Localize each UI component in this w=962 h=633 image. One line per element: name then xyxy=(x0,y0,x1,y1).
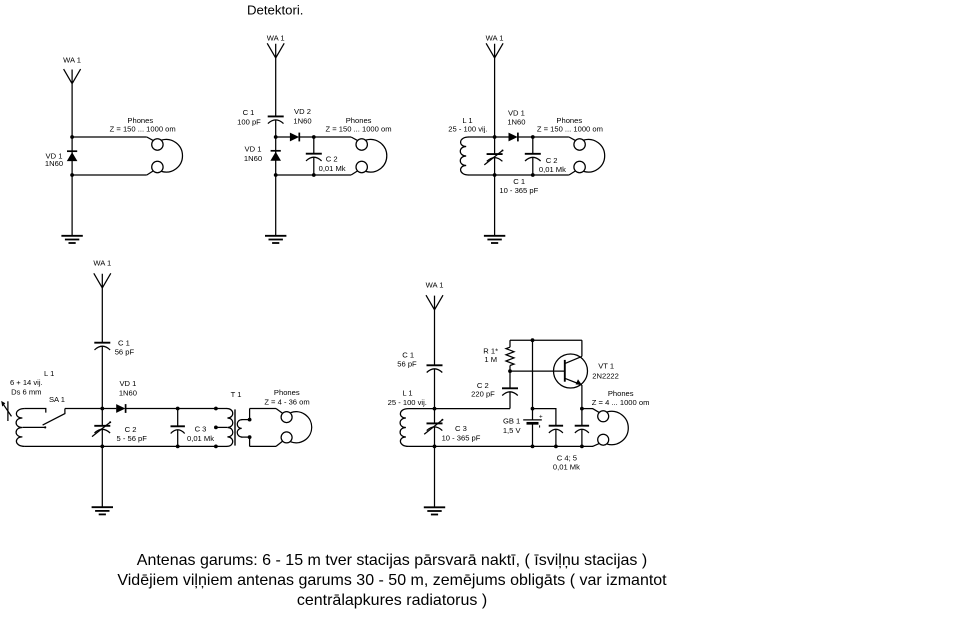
wire C1 to node A xyxy=(434,369,436,409)
wire coil bottom to node B xyxy=(408,445,434,447)
capacitor C5 0,01 Mk (circuit 5) xyxy=(575,409,589,447)
wire VD1 to node C xyxy=(126,408,178,410)
resistor R1 1 M (circuit 5) xyxy=(483,340,514,371)
diode VD1 1N60 (circuit 1) xyxy=(45,151,77,168)
wire node A to node B through diode xyxy=(71,137,73,175)
variable capacitor C3 10-365 pF (circuit 5) xyxy=(424,409,481,447)
svg-text:C 2: C 2 xyxy=(546,156,558,165)
svg-text:2N2222: 2N2222 xyxy=(592,371,619,380)
wire C1 to node A xyxy=(101,346,103,408)
svg-text:Antenas garums: 6 - 15 m tver: Antenas garums: 6 - 15 m tver stacijas p… xyxy=(137,552,647,569)
svg-text:VD 2: VD 2 xyxy=(294,107,311,116)
svg-text:0,01 Mk: 0,01 Mk xyxy=(539,165,566,174)
top rail node A to C2 xyxy=(435,408,511,410)
label C4;5 xyxy=(553,453,580,471)
ground (circuit 3) xyxy=(484,236,505,243)
node B xyxy=(274,173,278,177)
wire C1 to node A xyxy=(275,120,277,137)
svg-text:Detektori.: Detektori. xyxy=(247,2,303,17)
wire coil bottom to node B xyxy=(469,174,495,176)
svg-text:T 1: T 1 xyxy=(231,390,242,399)
svg-text:1,5 V: 1,5 V xyxy=(503,426,522,435)
svg-text:WA 1: WA 1 xyxy=(267,34,285,43)
svg-text:10 - 365 pF: 10 - 365 pF xyxy=(499,186,538,195)
svg-text:Z = 150 ... 1000 om: Z = 150 ... 1000 om xyxy=(110,124,176,133)
svg-text:WA 1: WA 1 xyxy=(93,259,111,268)
node A xyxy=(433,407,437,411)
antenna WA1 (circuit 5) xyxy=(426,281,444,310)
svg-text:C 1: C 1 xyxy=(118,339,130,348)
wire antenna to C1 xyxy=(275,58,277,117)
coil top to switch contact A xyxy=(25,409,46,413)
ferrite core adjust arrow for L1 xyxy=(1,401,11,421)
svg-text:Phones: Phones xyxy=(608,389,634,398)
node D xyxy=(176,445,180,449)
wire antenna to C1 xyxy=(101,288,103,343)
antenna WA1 (circuit 4) xyxy=(93,259,111,288)
bottom wire transformer to phones xyxy=(250,445,276,447)
diode VD1 1N60 vertical (circuit 2) xyxy=(244,144,281,163)
phones (circuit 5) xyxy=(592,389,650,447)
capacitor C3 0,01 Mk (circuit 4) xyxy=(171,409,215,447)
wire node A to diode VD1 xyxy=(495,136,509,138)
battery GB1 1,5 V (circuit 5) xyxy=(503,340,543,446)
wire antenna to C1 xyxy=(434,310,436,366)
node A xyxy=(274,135,278,139)
node C xyxy=(531,135,535,139)
variable capacitor C1 10-365 pF (circuit 3) xyxy=(484,137,538,195)
wire node B to ground xyxy=(71,175,73,236)
svg-text:1N60: 1N60 xyxy=(507,117,525,126)
node emitter xyxy=(580,407,584,411)
svg-text:+: + xyxy=(539,413,543,420)
svg-text:C 1: C 1 xyxy=(402,351,414,360)
svg-text:C 1: C 1 xyxy=(243,108,255,117)
svg-text:C 2: C 2 xyxy=(125,425,137,434)
inductor L1 25-100 vij. (circuit 5) xyxy=(388,388,427,446)
wire VD2 to node C xyxy=(299,136,313,138)
wire node A to diode VD2 xyxy=(276,136,290,138)
svg-text:L 1: L 1 xyxy=(44,369,54,378)
capacitor C1 100 pF (circuit 2) xyxy=(237,108,284,126)
wire node C to phones xyxy=(533,136,569,138)
top rail switch to node A xyxy=(65,408,102,410)
svg-text:WA 1: WA 1 xyxy=(63,55,81,64)
svg-text:Z = 150 ... 1000 om: Z = 150 ... 1000 om xyxy=(537,124,603,133)
node GB1/C4 branch xyxy=(531,407,535,411)
wire antenna to node A xyxy=(71,84,73,137)
svg-text:Z = 4 ... 1000 om: Z = 4 ... 1000 om xyxy=(592,398,650,407)
svg-text:6 + 14 vij.: 6 + 14 vij. xyxy=(10,378,43,387)
svg-text:Z = 150 ... 1000 om: Z = 150 ... 1000 om xyxy=(325,124,391,133)
ground (circuit 1) xyxy=(61,236,82,243)
svg-text:VD 1: VD 1 xyxy=(245,144,262,153)
svg-text:C 3: C 3 xyxy=(455,424,467,433)
svg-text:VD 1: VD 1 xyxy=(508,109,525,118)
phones (circuit 4) xyxy=(264,388,311,447)
capacitor C1 56 pF (circuit 4) xyxy=(94,339,134,357)
diode VD1 1N60 (circuit 4) xyxy=(116,379,137,413)
svg-text:Phones: Phones xyxy=(274,388,300,397)
svg-text:C 2: C 2 xyxy=(326,155,338,164)
node top/GB1 xyxy=(531,338,535,342)
node A xyxy=(100,407,104,411)
transistor VT1 2N2222 (circuit 5) xyxy=(554,340,619,408)
capacitor C4 0,01 Mk (circuit 5) xyxy=(549,426,563,447)
diode VD1 1N60 (circuit 3) xyxy=(507,109,525,142)
capacitor C2 220 pF (circuit 5) xyxy=(471,371,518,409)
ground (circuit 4) xyxy=(92,507,113,514)
wire node B to phones bottom xyxy=(72,174,147,176)
antenna WA1 (circuit 1) xyxy=(63,55,81,83)
node C4 bottom xyxy=(554,445,558,449)
wire node B to ground xyxy=(494,175,496,236)
wire VD1 to node C xyxy=(518,136,533,138)
phones (circuit 3) xyxy=(537,116,605,175)
node B xyxy=(433,445,437,449)
wire node C to phones xyxy=(314,136,351,138)
bottom rail node B to phones xyxy=(495,174,569,176)
capacitor C2 0,01 Mk (circuit 2) xyxy=(306,137,346,175)
bottom rail xyxy=(435,445,594,447)
node B xyxy=(70,173,74,177)
svg-text:VD 1: VD 1 xyxy=(119,379,136,388)
svg-text:10 - 365 pF: 10 - 365 pF xyxy=(442,433,481,442)
top wire transformer to phones xyxy=(250,408,276,410)
antenna WA1 (circuit 3) xyxy=(486,34,504,58)
wire to C4 xyxy=(533,409,556,426)
svg-text:Vidējiem viļņiem antenas garum: Vidējiem viļņiem antenas garums 30 - 50 … xyxy=(117,572,667,589)
node R1/C2/base xyxy=(508,369,512,373)
phones (circuit 2) xyxy=(325,116,391,175)
wire emitter node to phones xyxy=(582,408,593,410)
wire node A to coil xyxy=(469,136,495,138)
wire antenna to node A xyxy=(494,58,496,137)
svg-text:VT 1: VT 1 xyxy=(598,362,614,371)
diode VD2 1N60 (circuit 2) xyxy=(290,107,312,141)
svg-text:5 - 56 pF: 5 - 56 pF xyxy=(117,434,148,443)
node B xyxy=(100,445,104,449)
svg-text:100 pF: 100 pF xyxy=(237,117,261,126)
svg-text:0,01 Mk: 0,01 Mk xyxy=(319,164,346,173)
wire node B to ground xyxy=(275,175,277,236)
node B xyxy=(493,173,497,177)
svg-text:centrālapkures radiatorus ): centrālapkures radiatorus ) xyxy=(297,592,487,609)
bottom rail coil to transformer xyxy=(25,445,216,447)
top supply line xyxy=(510,339,582,341)
wire node B to ground xyxy=(434,446,436,507)
switch SA1 lever xyxy=(43,395,65,425)
wire node A to diode VD1 xyxy=(102,408,116,410)
capacitor C2 0,01 Mk (circuit 3) xyxy=(525,137,566,175)
svg-text:220 pF: 220 pF xyxy=(471,390,495,399)
svg-text:56 pF: 56 pF xyxy=(397,359,417,368)
svg-text:56 pF: 56 pF xyxy=(115,347,135,356)
svg-text:L 1: L 1 xyxy=(402,388,412,397)
wire node A to coil xyxy=(408,408,434,410)
node A xyxy=(493,135,497,139)
bottom rail node B to phones xyxy=(276,174,351,176)
svg-text:1N60: 1N60 xyxy=(244,154,262,163)
ground (circuit 2) xyxy=(265,236,286,243)
transformer T1 (circuit 4) xyxy=(214,390,252,448)
node C xyxy=(312,135,316,139)
base wire xyxy=(510,370,564,372)
svg-text:25 - 100 vij.: 25 - 100 vij. xyxy=(448,125,487,134)
node C5 bottom xyxy=(580,445,584,449)
inductor L1 25-100 vij. (circuit 3) xyxy=(448,116,487,175)
node C xyxy=(176,407,180,411)
wire node A to phones top xyxy=(72,136,147,138)
ground (circuit 5) xyxy=(424,507,445,514)
svg-text:Z = 4 - 36 om: Z = 4 - 36 om xyxy=(264,398,309,407)
svg-text:0,01 Mk: 0,01 Mk xyxy=(187,434,214,443)
svg-text:1N60: 1N60 xyxy=(293,116,311,125)
svg-text:C 1: C 1 xyxy=(513,177,525,186)
node A xyxy=(70,135,74,139)
variable capacitor C2 5-56 pF (circuit 4) xyxy=(92,409,147,447)
svg-text:1N60: 1N60 xyxy=(45,159,63,168)
svg-text:Ds 6 mm: Ds 6 mm xyxy=(11,388,41,397)
svg-text:1 M: 1 M xyxy=(484,355,497,364)
capacitor C1 56 pF (circuit 5) xyxy=(397,351,442,373)
wire node A to node B through diode xyxy=(275,137,277,175)
wire node B to ground xyxy=(101,446,103,507)
inductor L1 6+14 vij. Ds 6 mm (circuit 4) xyxy=(10,369,54,447)
svg-text:1N60: 1N60 xyxy=(119,388,137,397)
svg-text:C 4; 5: C 4; 5 xyxy=(557,453,577,462)
svg-text:C 3: C 3 xyxy=(195,425,207,434)
svg-text:WA 1: WA 1 xyxy=(486,34,504,43)
phones (circuit 1) xyxy=(110,116,183,175)
svg-text:SA 1: SA 1 xyxy=(49,395,65,404)
node D xyxy=(531,173,535,177)
node GB bottom xyxy=(531,445,535,449)
antenna WA1 (circuit 2) xyxy=(267,34,285,58)
coil tap to switch contact B xyxy=(23,426,45,428)
node D xyxy=(312,173,316,177)
svg-text:0,01 Mk: 0,01 Mk xyxy=(553,463,580,472)
svg-text:GB 1: GB 1 xyxy=(503,416,520,425)
top rail node C to transformer xyxy=(178,408,216,410)
svg-text:25 - 100 vij.: 25 - 100 vij. xyxy=(388,398,427,407)
svg-text:WA 1: WA 1 xyxy=(426,281,444,290)
